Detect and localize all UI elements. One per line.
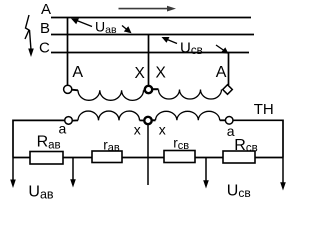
- svg-text:Uав: Uав: [95, 19, 117, 37]
- wire phase B dropper: [148, 35, 150, 86]
- svg-text:Uав: Uав: [28, 184, 54, 202]
- power flow direction arrow: [119, 6, 177, 12]
- svg-text:ТН: ТН: [254, 101, 274, 118]
- svg-text:Uсв: Uсв: [227, 183, 251, 201]
- junction X-X primary: [144, 86, 159, 93]
- wire secondary left branch: [13, 120, 65, 157]
- svg-text:A: A: [216, 64, 227, 81]
- resistor rав: [92, 151, 122, 163]
- bus wire bottom: [13, 157, 283, 159]
- svg-text:Rсв: Rсв: [234, 137, 257, 155]
- secondary winding left coil: [72, 111, 144, 121]
- voltage arrow Uав bottom mid: [70, 158, 76, 188]
- svg-text:rсв: rсв: [173, 135, 189, 152]
- svg-text:X: X: [156, 65, 167, 82]
- primary winding right coil: [159, 90, 222, 100]
- svg-text:Rав: Rав: [37, 133, 61, 151]
- wire secondary right branch: [233, 120, 283, 157]
- svg-text:x: x: [159, 122, 166, 138]
- voltage arrow Uав bottom left: [10, 158, 16, 189]
- voltage arrow Uсв pointer right: [216, 45, 229, 54]
- resistor Rсв: [223, 151, 255, 163]
- voltage arrow Uсв bottom mid: [203, 158, 209, 189]
- terminal a secondary right: [225, 117, 233, 125]
- secondary winding right coil: [156, 111, 226, 120]
- wire middle tap from x-x junction: [147, 124, 149, 185]
- svg-text:A: A: [41, 1, 51, 18]
- svg-text:A: A: [72, 64, 83, 81]
- voltage arrow Uав pointer left: [71, 18, 92, 26]
- voltage arrow Uав pointer right: [122, 26, 132, 34]
- svg-text:Uсв: Uсв: [180, 40, 203, 57]
- voltage arrow Uсв pointer left: [162, 37, 178, 44]
- terminal A primary left: [64, 85, 72, 93]
- wire line A: [51, 17, 251, 19]
- wire phase A dropper: [67, 18, 69, 86]
- junction x-x secondary: [144, 117, 155, 124]
- voltage arrow right branch: [280, 158, 286, 191]
- resistor rсв: [164, 151, 195, 163]
- svg-text:x: x: [134, 122, 141, 138]
- wire line C: [51, 52, 249, 54]
- svg-text:B: B: [40, 20, 50, 37]
- terminal A primary right diamond: [223, 85, 233, 95]
- primary winding left coil: [72, 90, 144, 101]
- svg-text:rав: rав: [103, 137, 120, 154]
- wire phase C dropper: [228, 53, 230, 86]
- svg-text:X: X: [135, 65, 146, 82]
- terminal a secondary left: [65, 117, 73, 125]
- svg-text:C: C: [39, 40, 50, 57]
- incoming supply lightning arrow: [25, 15, 34, 57]
- svg-text:a: a: [59, 120, 67, 136]
- wire line B: [51, 34, 254, 36]
- resistor Rав: [30, 152, 63, 165]
